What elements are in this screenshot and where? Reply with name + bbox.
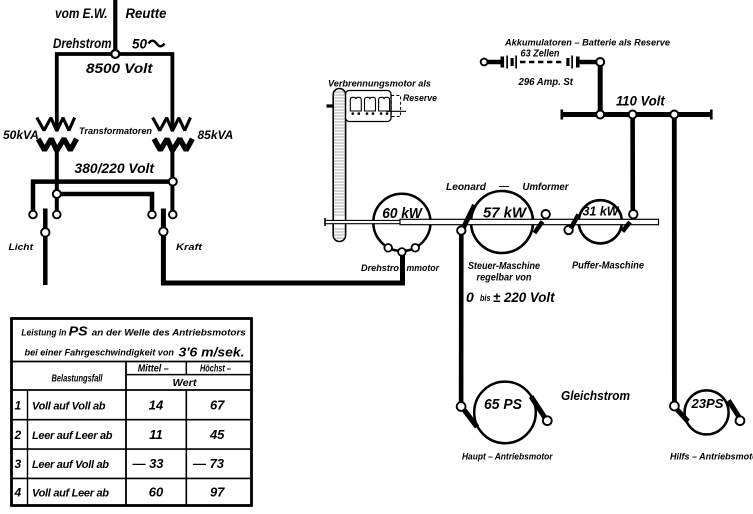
svg-text:Reserve: Reserve [403,93,438,104]
svg-text:380/220 Volt: 380/220 Volt [75,161,155,176]
svg-text:45: 45 [209,427,225,442]
belt drive of reserve engine [333,89,346,242]
svg-text:Drehstro: Drehstro [361,263,399,274]
battery: left lead [488,60,501,65]
svg-text:67: 67 [210,397,225,412]
terminal: battery right node [596,58,604,66]
battery: dashed middle cells [520,61,565,64]
terminal: 57kW right [542,210,550,218]
table: outer border [12,319,252,506]
bus: 380/220V upper bus with left drop [33,182,173,211]
engine cylinder 3 [379,97,390,111]
svg-text:Gleichstrom: Gleichstrom [561,388,630,403]
terminal: 60kW left [384,244,392,252]
svg-text:Leistung in: Leistung in [21,328,66,338]
motor 65PS (Haupt-Antriebsmotor) [474,382,536,444]
svg-text:Voll auf Leer ab: Voll auf Leer ab [32,487,109,499]
wire: T2 secondary down-lead [170,151,174,212]
terminal: 60kW bottom [398,248,406,256]
svg-text:3: 3 [14,457,21,471]
battery: right lead [580,60,597,65]
svg-text:60: 60 [149,484,164,499]
node: T2 on upper bus [169,178,177,186]
brush: 31kW right [623,222,631,232]
svg-text:Mittel –: Mittel – [138,364,170,375]
node: HV junction [111,50,119,58]
battery: left terminal [481,59,488,66]
svg-text:PS: PS [69,325,89,339]
terminal: 31kW right (from 110V bus) [629,210,637,218]
svg-text:Licht: Licht [9,242,34,253]
svg-text:Leer auf Voll ab: Leer auf Voll ab [32,459,109,471]
terminal: 23PS right [736,416,745,425]
svg-text:Hilfs – Antriebsmotor: Hilfs – Antriebsmotor [670,452,753,462]
terminal: upper bus left stub [29,211,37,219]
svg-text:Höchst –: Höchst – [200,364,231,375]
svg-text:11: 11 [149,427,163,442]
svg-text:Drehstrom: Drehstrom [53,36,112,51]
node: 31kW tap on bus [629,111,637,119]
machine 31kW (Puffer-Maschine) [579,200,622,243]
svg-text:65 PS: 65 PS [484,396,522,413]
terminal: 31kW left [564,226,572,234]
generator 57kW (Steuer-Maschine) [471,191,533,253]
svg-text:Voll auf Voll ab: Voll auf Voll ab [32,400,106,412]
svg-text:Verbrennungsmotor als: Verbrennungsmotor als [328,79,431,90]
svg-text:110 Volt: 110 Volt [616,94,665,109]
bus: 380/220V lower bus with right drop [57,194,152,211]
wire: T1 secondary down-lead [55,151,59,212]
terminal: 23PS left [670,402,679,411]
shaft: 60kW through 31kW (thick) [400,219,659,224]
svg-text:31 kW: 31 kW [583,204,621,219]
battery: plates right group [566,58,569,66]
svg-text:Transformatoren: Transformatoren [79,126,153,136]
shaft: belt to 60kW (thin) [325,220,405,223]
svg-text:296 Amp. St: 296 Amp. St [518,77,574,88]
engine cylinder 2 [365,97,376,111]
svg-text:3'6 m/sek.: 3'6 m/sek. [179,346,245,360]
svg-text:bis: bis [480,293,491,303]
table: row lines [12,419,252,421]
svg-text:Leonard: Leonard [446,182,487,193]
terminal: 65PS right [543,416,552,425]
svg-text:Umformer: Umformer [523,182,570,193]
svg-text:Reutte: Reutte [126,6,167,21]
battery: plates left group [501,57,505,68]
svg-text:0: 0 [466,289,474,305]
svg-text:Leer auf Leer ab: Leer auf Leer ab [32,430,113,442]
svg-text:Akkumulatoren – Batterie als R: Akkumulatoren – Batterie als Reserve [504,38,670,48]
motor 60kW (Drehstrommotor) [373,194,430,251]
svg-text:8500 Volt: 8500 Volt [86,61,153,76]
feeder: Kraft with fuse, runs to 60kW motor [163,209,402,284]
svg-text:Wert: Wert [173,378,198,389]
svg-text:1: 1 [14,398,21,412]
svg-text:bei einer Fahrgeschwindigkeit: bei einer Fahrgeschwindigkeit von [25,348,175,358]
svg-text:Steuer-Maschine: Steuer-Maschine [468,261,540,272]
table: Mittel/Hoechst underline [126,374,252,376]
svg-text:Puffer-Maschine: Puffer-Maschine [572,261,645,272]
brush: 65PS left [464,409,478,427]
svg-text:2: 2 [13,428,21,442]
motor 23PS (Hilfs-Antriebsmotor) [685,390,729,434]
brush: 31kW left [571,215,579,229]
svg-text:23PS: 23PS [690,396,723,411]
terminal: 60kW right [412,244,420,252]
brush: 23PS left [677,410,688,422]
transformer T1 50kVA primary winding [37,118,75,132]
svg-text:— 33: — 33 [131,456,164,471]
svg-text:vom E.W.: vom E.W. [55,6,108,21]
wire: 110V bus down to 23PS motor [672,115,677,407]
svg-text:Kraft: Kraft [176,242,203,253]
terminal: T1 lead [53,211,61,219]
node: 23PS tap on bus [670,111,678,119]
wire: 57kW left brush lead down to 65PS motor [459,231,464,407]
transformer T2 85kVA secondary winding [154,139,192,151]
svg-text:50kVA: 50kVA [3,128,39,142]
svg-text:an der Welle des Antriebsmotor: an der Welle des Antriebsmotors [92,328,246,338]
wire: battery to 110V bus [598,62,603,115]
terminal: T2 lead [169,211,177,219]
combustion engine body [346,91,391,122]
engine coupling (dashed) [391,96,400,117]
crankshaft stub left of belt [327,104,335,107]
table: header bottom line [12,389,252,391]
brush: 65PS right [531,397,546,419]
svg-text:—: — [498,181,510,192]
svg-text:63 Zellen: 63 Zellen [521,49,560,60]
svg-text:± 220 Volt: ± 220 Volt [493,289,556,305]
brush: 23PS right [729,401,741,419]
brush: 57kW left [463,205,475,230]
svg-text:regelbar von: regelbar von [477,273,532,284]
node: T1 on lower bus [53,190,61,198]
terminal: 57kW left brush [457,226,465,234]
terminal: 65PS left [457,402,466,411]
wire: 8500V distribution U-run [57,54,173,130]
svg-text:mmotor: mmotor [407,263,441,274]
brush: 57kW right [535,222,543,234]
transformer T1 50kVA secondary winding [38,139,76,151]
feeder: Licht with fuse [43,209,48,286]
table: column dividers [125,362,127,506]
svg-text:57 kW: 57 kW [483,206,527,222]
table: header separator [12,361,252,363]
svg-text:Haupt – Antriebsmotor: Haupt – Antriebsmotor [462,452,553,462]
svg-text:97: 97 [210,484,225,499]
engine output shaft line [386,110,406,112]
svg-text:14: 14 [149,397,164,412]
svg-text:— 73: — 73 [192,456,225,471]
wire: incoming HV feed from E.W. Reutte [113,0,117,53]
svg-text:85kVA: 85kVA [198,128,234,142]
bus: 110 Volt [561,112,713,117]
transformer T2 85kVA primary winding [153,118,191,132]
svg-text:4: 4 [13,485,21,499]
wire: 110V bus down to 31kW right brush [630,115,635,215]
svg-text:50: 50 [132,37,147,52]
terminal: lower bus right stub [148,211,156,219]
engine cylinder 1 [350,97,361,111]
svg-text:Belastungsfall: Belastungsfall [52,374,103,385]
node: battery tap on bus [596,111,604,119]
svg-text:60 kW: 60 kW [382,206,423,222]
